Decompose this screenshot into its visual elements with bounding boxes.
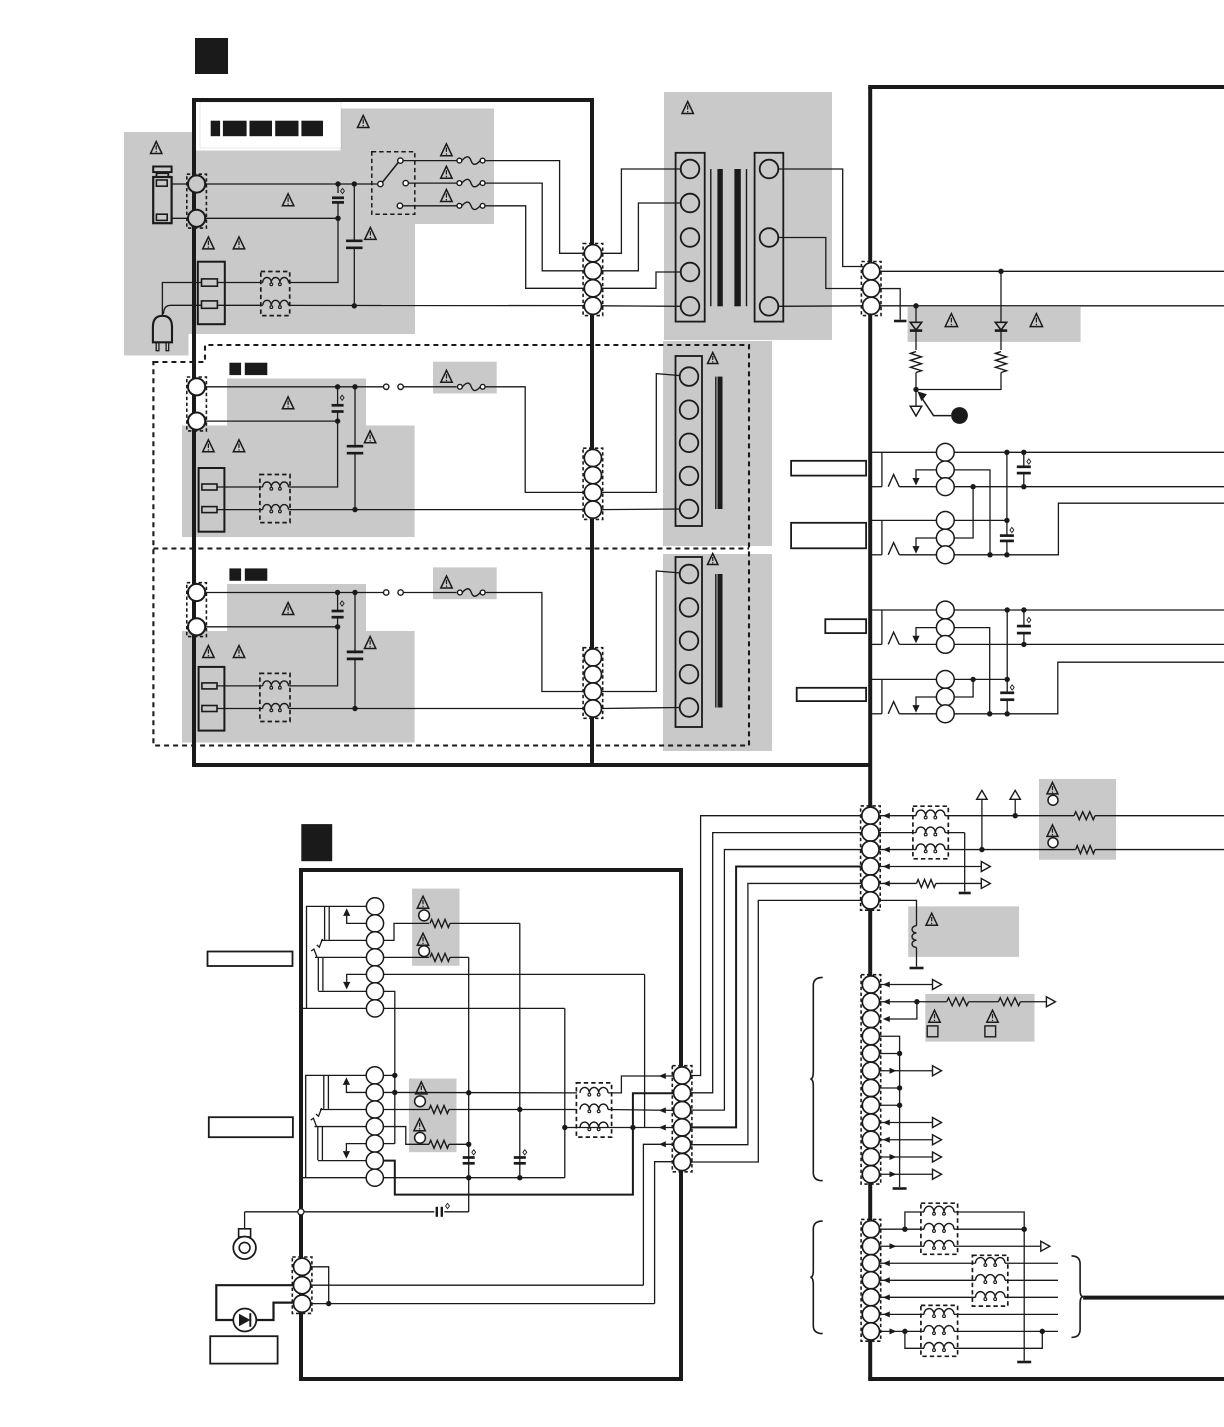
warning triangle F1c <box>441 190 452 202</box>
wire LED to CN7-3 <box>256 1303 294 1320</box>
wire neutral bus sec1 <box>289 304 585 306</box>
wire CN12-2 row <box>879 1245 924 1247</box>
transformer T1 secondary connector <box>755 153 784 322</box>
wire CN2-2 to ground <box>880 289 900 320</box>
redacted title bars section 1 <box>211 121 220 137</box>
wire CN10-3 row <box>879 849 916 851</box>
capacitor C11 <box>1006 520 1008 535</box>
wire CN12-6 row <box>880 1313 925 1315</box>
unit C enclosure border left edge <box>868 87 872 1379</box>
core section2 <box>718 377 723 509</box>
wire CN11-1 <box>880 984 933 986</box>
junction dots L section2 <box>335 384 340 389</box>
T1 winding line primary <box>710 169 712 306</box>
wire CN1-2 to T1 pin2 <box>602 203 681 271</box>
transformer pin 1 section2 <box>680 367 699 386</box>
capacitor C21 <box>514 1156 526 1159</box>
ground CN12 <box>1017 1361 1031 1364</box>
wire CN6-4 to VR6 <box>383 1127 429 1145</box>
jack A contact lower <box>316 1108 322 1116</box>
label plate IN B <box>209 1117 293 1137</box>
warning triangle top label sec1 <box>358 116 369 128</box>
wire CN1-4 to T1 pin5 <box>602 305 681 308</box>
wire block to choke section3 <box>217 685 263 687</box>
jack A prongs lower <box>323 1075 325 1108</box>
common mode choke LF1 sec1 <box>261 272 290 316</box>
wire CN11-7 <box>879 1087 900 1089</box>
junction dots L line <box>335 181 340 186</box>
junction dot +V rail <box>998 269 1003 274</box>
dashed enclosure sections 2-3 <box>153 345 749 746</box>
connector J section3 <box>187 583 207 637</box>
capacitor C1 sec1 <box>337 184 339 193</box>
fuse F1a <box>457 158 462 163</box>
connector CN8 unit B right edge <box>672 1066 692 1172</box>
wire VR5 out to bead <box>449 1109 577 1111</box>
riser wire CN8-1 to CN10-1 <box>691 816 862 1076</box>
label plate IN A <box>208 952 293 967</box>
wire L line section2 <box>206 386 384 388</box>
jack J12 <box>872 609 937 611</box>
connector CN7 unit B bottom <box>292 1257 312 1313</box>
series capacitor C22 <box>245 1211 435 1213</box>
wire CN11-2 <box>880 1001 947 1003</box>
thick output line <box>1083 1296 1224 1300</box>
unit B enclosure border <box>301 870 681 1379</box>
wire sleeve rail J12 <box>954 643 1224 645</box>
warning triangle transformer section2 <box>708 353 718 364</box>
wire FB1 r3 to CN8-4 <box>565 1127 674 1129</box>
wire neutral bus section2 <box>289 509 585 511</box>
unit A enclosure border <box>194 100 592 765</box>
T1 secondary pin 3 <box>760 297 779 316</box>
capacitor C12 <box>1023 610 1025 626</box>
fuse section2 <box>458 384 463 389</box>
arrow into CN12-6 <box>883 1311 890 1317</box>
wire T1 sec2 to CN2-2 <box>778 238 862 289</box>
arrow into CN10-1 <box>883 813 890 819</box>
arrow CN8-5 <box>659 1141 666 1147</box>
resistor R11 <box>1076 846 1095 854</box>
wire CN6-1 left down to CN6-7 <box>306 1075 367 1177</box>
fuse section3 <box>458 590 463 595</box>
wire VR6 out <box>449 1143 469 1145</box>
wire CN7-3 right <box>311 1303 655 1305</box>
connector CN section2 <box>583 448 603 519</box>
terminal block section2 <box>199 468 225 532</box>
pot VR3 <box>417 896 428 908</box>
wire CN5-4 to VR4 <box>384 956 429 958</box>
wire ring J10 to sleeve J11 <box>954 470 990 555</box>
warning triangles filter sec1 <box>203 237 214 249</box>
gray panel transformer T2 <box>663 341 772 546</box>
footswitch RCA jack <box>244 1212 246 1229</box>
label plate footswitch <box>210 1336 277 1363</box>
wire R1 to node <box>915 373 917 390</box>
wire CN4 to T pin5 section2 <box>602 508 681 511</box>
wire FB5 r3 loop <box>905 1331 924 1348</box>
jack A ring arrow upper <box>347 916 367 924</box>
wire CN6-2 right bus <box>383 1091 577 1093</box>
wire N line section1 <box>206 217 338 219</box>
AC inlet fuse holder <box>153 167 171 173</box>
warning triangle T1 <box>682 102 693 114</box>
jack B top line upper <box>315 956 366 958</box>
warning triangle C2 section3 <box>364 637 375 649</box>
bus CN5-7 to CN6-7 <box>564 1008 566 1177</box>
wire neutral bus section3 <box>289 708 585 710</box>
transformer pin 4 section2 <box>680 467 699 486</box>
arrow into CN12-3 <box>883 1260 890 1266</box>
resistor R2 <box>996 352 1007 373</box>
junction dot 0V rail <box>913 303 918 308</box>
warning triangle near C2 sec1 <box>365 227 376 239</box>
junction dots L section3 <box>335 590 340 595</box>
pot VR5 <box>416 1082 427 1094</box>
wire FB3 r1 loop <box>905 1212 924 1229</box>
LED D3 <box>233 1309 256 1332</box>
open contacts section3 <box>384 590 389 595</box>
jack A prongs upper <box>324 906 326 939</box>
capacitor C1 section2 <box>337 387 339 406</box>
bus CN7-2 up to CN6 r5 line <box>643 1144 673 1285</box>
wire CN6-5 up bus <box>383 1143 394 1145</box>
bus from VR3 upper down <box>519 923 521 1177</box>
label plate OUT B <box>791 523 866 549</box>
wire CN7-2 left to LED <box>216 1285 293 1320</box>
wire sleeve rail J10 <box>954 486 1224 488</box>
resistor R14 <box>998 998 1020 1006</box>
ground bus CN12 <box>1023 1229 1025 1360</box>
wire CN5-3 to VR3 <box>384 923 429 940</box>
connector CN section3 <box>583 648 603 719</box>
gray panel mains input section <box>124 132 196 334</box>
wire CN11-12 <box>879 1173 932 1175</box>
AC plug sec1 <box>153 316 172 343</box>
arrow into CN11-1 <box>883 982 890 988</box>
gray panel pots VR5 VR6 <box>409 1079 457 1153</box>
arrow into CN10-3 <box>883 847 890 853</box>
riser wire CN8-6 to CN10-6 <box>691 900 862 1162</box>
wire CN6-7 bus right <box>383 1177 564 1179</box>
transformer T1 primary connector <box>676 153 705 322</box>
wire choke1 to C1 node section3 <box>289 627 338 686</box>
gray panel fuse F2 <box>433 362 497 394</box>
wire CN10-2 to ground <box>964 833 966 892</box>
jack J13 <box>872 678 937 680</box>
wire ring J11 to sleeve J10 <box>954 487 973 538</box>
jack B bottom line lower <box>318 1160 366 1162</box>
wire CN7-2 right <box>311 1284 644 1286</box>
junction dot ground out <box>630 1125 635 1130</box>
wire CN11-9 <box>880 1122 933 1124</box>
transformer pin 4 section3 <box>680 665 699 684</box>
jack A sleeve line lower <box>320 1109 366 1111</box>
wire CN1-3 to T1 pin4 <box>602 272 681 288</box>
wire R2 to node <box>916 373 1001 390</box>
jack A ring arrow lower <box>346 1085 366 1093</box>
gray panel diodes <box>908 307 1081 342</box>
chassis arrow from screw <box>922 398 952 416</box>
wire choke1 out to C1 node <box>289 218 339 282</box>
capacitor C1 section3 <box>337 593 339 612</box>
vertical bus caps group1 <box>1006 452 1008 520</box>
bus from VR4 upper down <box>468 957 470 1212</box>
arrow into CN11-10 <box>883 1137 890 1143</box>
vertical bus caps group2 <box>1006 610 1008 679</box>
jack B ring arrow upper <box>347 974 367 982</box>
brace CN11 group <box>810 977 822 1180</box>
label plate OUT A <box>791 461 866 476</box>
wire CN11-10 <box>880 1139 933 1141</box>
T1 primary pin 2 <box>681 194 700 213</box>
T1 primary pin 3 <box>681 228 700 247</box>
jack B contact upper <box>311 949 317 957</box>
wire ring J12 to sleeve J13 <box>954 628 990 714</box>
fuse F1b <box>457 181 462 186</box>
jack B bottom line upper <box>318 990 366 992</box>
wire CN6-6 ground out <box>383 1093 673 1194</box>
wire CN5-6 ground bus <box>384 991 395 1143</box>
wire sleeve rail J11 out <box>954 503 1224 555</box>
wire FB1 r2 to CN8-3 <box>608 1109 674 1112</box>
wire CN11-3 from tee <box>887 1002 917 1019</box>
enclosure bottom link segment <box>592 763 872 767</box>
wire VR3 out <box>450 922 520 924</box>
wire CN10-2 row <box>879 832 916 834</box>
jack B prongs upper <box>317 957 319 990</box>
wire CN1-1 to T1 pin1 <box>602 169 681 253</box>
pot symbol VR1 <box>1047 782 1058 794</box>
riser wire CN8-2 to CN10-2 <box>691 833 862 1093</box>
redacted title bars section 3 <box>229 568 241 580</box>
warning triangle above inlet <box>151 142 162 154</box>
winding line section3 <box>715 574 717 708</box>
switch box SW1 <box>927 1026 938 1037</box>
wire CN11-6 <box>879 1070 932 1072</box>
transformer pin 5 section2 <box>680 500 699 519</box>
gray panel switches SW area <box>925 994 1034 1042</box>
wire F1b to CN1-2 <box>485 183 584 271</box>
resistor R12 <box>917 879 936 887</box>
wire R13 to R14 <box>969 1001 999 1003</box>
transformer connector section3 <box>676 557 703 727</box>
capacitor C2 section2 <box>354 387 356 448</box>
wire CN11-8 <box>879 1104 900 1106</box>
transformer pin 3 section3 <box>680 632 699 651</box>
wire ring J13 to tip J13 <box>954 679 973 697</box>
connector CN11 <box>861 975 881 1184</box>
jack A contact upper <box>317 939 323 947</box>
wire CN7-1 jump to CN7-3 <box>311 1267 329 1304</box>
wire tip rail J12 <box>954 609 1224 611</box>
gray panel pots VR3 VR4 <box>412 889 459 966</box>
capacitor C10 <box>1023 452 1025 467</box>
wire CN12-5 row <box>880 1296 976 1298</box>
wire CN11-11 <box>879 1156 932 1158</box>
section marker A (black square) <box>195 38 228 74</box>
arrow into CN10-5 <box>883 880 890 886</box>
EMI bead filter FB1 <box>576 1083 611 1137</box>
wire CN11-5 <box>879 1053 900 1055</box>
border feedthrough node <box>298 1209 304 1215</box>
connector CN5 unit B upper <box>366 898 383 915</box>
transformer pin 2 section3 <box>680 598 699 617</box>
connector J1 section 1 <box>187 174 207 228</box>
ground L1 <box>910 967 924 970</box>
wire CN12-4 row <box>880 1279 976 1281</box>
wire CN6-1 right <box>383 1074 394 1076</box>
EMI bead filter FB2 <box>913 806 948 859</box>
warning triangle fuse section2 <box>441 370 452 382</box>
T1 secondary pin 1 <box>760 160 779 179</box>
arrow into CN12-4 <box>883 1277 890 1283</box>
terminal block TB1 sec1 <box>198 262 225 325</box>
wire N line section2 <box>206 420 338 422</box>
gray panel section 3 filter lower <box>182 631 415 743</box>
gray panel section 2 filter lower <box>182 426 415 538</box>
wire VR4 out <box>450 956 469 958</box>
bus CN7-3 up to CN6 r6 line <box>655 1162 674 1304</box>
wire choke1 to C1 node section2 <box>289 421 338 487</box>
ground CN11 bus <box>893 1187 907 1190</box>
wire CN5-7 bus right <box>384 1007 565 1009</box>
connector J section2 <box>187 377 207 431</box>
arrow into CN10-4 <box>883 864 890 870</box>
warning triangle mid section2 <box>282 397 293 409</box>
wire R11 out <box>1095 849 1224 851</box>
capacitor C2 sec1 <box>353 184 355 241</box>
T1 primary pin 5 <box>681 297 700 316</box>
wire L line section1 <box>206 183 381 185</box>
unit C enclosure top edge <box>868 85 1224 89</box>
wire CN12-1 row <box>880 1228 925 1230</box>
wire T1 sec3 to CN2-3 <box>778 305 862 308</box>
wire CN3 to T pin1 section3 <box>602 571 681 692</box>
wire R10 out <box>1095 815 1224 817</box>
wire sw mid to F1b <box>408 182 456 184</box>
switch box SW2 <box>985 1026 996 1037</box>
resistor R13 <box>947 998 969 1006</box>
white title panel section 1 <box>200 102 341 148</box>
wire fuse to CN section3 <box>485 593 584 692</box>
open contacts section2 <box>384 384 389 389</box>
wire CN11-4 ground bus <box>879 1036 900 1187</box>
wire L line section3 <box>206 592 384 594</box>
pot VR6 <box>414 1119 425 1131</box>
winding line section2 <box>715 377 717 509</box>
wire CN12-7 row <box>879 1330 924 1332</box>
wire 0V rail <box>880 305 1224 307</box>
T1 winding line secondary <box>746 169 748 306</box>
ground CN2-2 <box>894 320 907 323</box>
wire F1c to CN1-3 <box>485 206 584 288</box>
warning triangle mid sec1 <box>282 194 293 206</box>
wire CN10-1 row <box>879 815 916 817</box>
pot VR4 <box>417 933 428 945</box>
gray panel voltage selector and fuses <box>341 109 494 225</box>
wire sw top to F1a <box>403 160 457 162</box>
common mode choke section3 <box>260 673 290 721</box>
warning triangle C2 section2 <box>364 431 375 443</box>
warning triangle D2 <box>1030 314 1042 327</box>
wire T1 sec1 to CN2-1 <box>778 169 863 267</box>
gray panel level pots VR1 VR2 <box>1039 779 1116 860</box>
connector CN2 <box>861 262 881 316</box>
riser wire CN8-4 to CN10-4 <box>691 867 862 1128</box>
wire tip J13 bus <box>954 678 1007 680</box>
screw terminal (black dot) <box>951 407 968 424</box>
EMI bead FB5 <box>921 1305 958 1356</box>
wire sleeve rail J13 out <box>954 662 1224 714</box>
arrow into CN11-2 <box>883 999 890 1005</box>
wire CN5-5 right <box>384 973 645 975</box>
gray panel section 2 filter upper <box>227 379 366 426</box>
wire TB1 to choke sec1 <box>217 282 262 284</box>
wire CN10-4 row <box>879 866 981 868</box>
wire CN6-7 to chassis <box>303 1177 366 1179</box>
warning triangle SW1 <box>929 1010 940 1022</box>
terminal block section3 <box>199 667 225 731</box>
wire CN10-5 row <box>879 882 916 884</box>
gray panel inductor L1 <box>908 906 1019 957</box>
transformer pin 2 section2 <box>680 400 699 419</box>
resistor R1 <box>911 352 922 373</box>
jack B contact lower <box>311 1118 317 1126</box>
section marker B (black square) <box>301 824 332 861</box>
riser wire CN8-5 to CN10-5 <box>691 883 862 1144</box>
warning triangle D1 <box>945 314 957 327</box>
jack B top line lower <box>315 1126 367 1128</box>
redacted title bars section 2 <box>229 363 241 375</box>
diode D1 <box>915 306 917 322</box>
EMI bead FB4 <box>972 1255 1007 1306</box>
transformer pin 1 section3 <box>680 565 699 584</box>
warning triangle transformer section3 <box>708 554 718 565</box>
label plate OUT C <box>825 619 866 633</box>
wire contacts to fuse section3 <box>403 592 456 594</box>
connector CN6 unit B lower <box>366 1067 383 1084</box>
arrow into CN12-5 <box>883 1294 890 1300</box>
wire +V rail <box>880 270 1224 272</box>
wire CN5-7 to chassis <box>303 1007 367 1009</box>
arrow into CN11-9 <box>883 1120 890 1126</box>
capacitor C20 <box>463 1156 475 1159</box>
wire tip J11 bus <box>954 519 1007 521</box>
jack A sleeve line upper <box>321 939 366 941</box>
supply arrow V2 <box>981 799 983 849</box>
brace snake outputs <box>1072 1256 1084 1338</box>
gray panel fuse F3 <box>433 567 497 599</box>
unit C enclosure bottom edge <box>868 1377 1224 1381</box>
warning triangle F1b <box>441 166 452 178</box>
wire CN12-3 row <box>880 1262 976 1264</box>
label plate OUT D <box>797 688 866 701</box>
T1 primary pin 1 <box>681 160 700 179</box>
gray panel transformer T1 <box>664 92 832 340</box>
warning triangle F1a <box>441 144 452 156</box>
wire block to choke section2 <box>217 486 263 488</box>
warning triangle mid section3 <box>282 603 293 615</box>
wire inlet to J1 pins <box>171 183 188 185</box>
warning triangle L1 <box>926 913 937 925</box>
jack B ring arrow lower <box>346 1144 366 1152</box>
wire R14 out <box>1020 1001 1046 1003</box>
wire CN10-6 to L1 <box>879 900 917 925</box>
wire F1a to CN1-1 <box>485 161 584 254</box>
pot symbol VR2 <box>1047 825 1058 837</box>
warning triangles filter section2 <box>203 440 214 452</box>
